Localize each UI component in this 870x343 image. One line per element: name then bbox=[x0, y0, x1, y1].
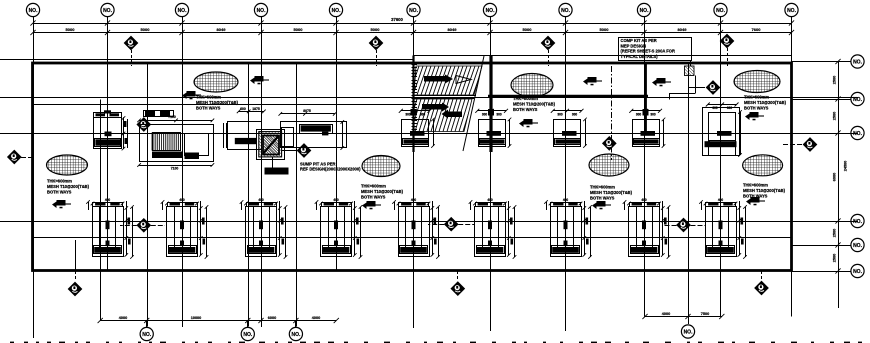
svg-text:BOTH WAYS: BOTH WAYS bbox=[744, 105, 769, 110]
svg-text:THK=600mm: THK=600mm bbox=[744, 95, 769, 100]
svg-text:400: 400 bbox=[333, 198, 339, 202]
svg-text:400: 400 bbox=[563, 198, 569, 202]
svg-text:300: 300 bbox=[712, 106, 718, 110]
svg-text:300: 300 bbox=[405, 112, 411, 116]
svg-text:7500: 7500 bbox=[701, 312, 709, 316]
svg-text:MESH T10@200(T&B): MESH T10@200(T&B) bbox=[513, 101, 556, 106]
svg-text:THK=600mm: THK=600mm bbox=[590, 185, 615, 190]
svg-text:4000: 4000 bbox=[312, 316, 320, 320]
svg-text:2500: 2500 bbox=[833, 229, 837, 237]
svg-text:BOTH WAYS: BOTH WAYS bbox=[590, 195, 615, 200]
svg-text:400: 400 bbox=[487, 198, 493, 202]
svg-text:REF DESIGN(2000X2000X2000): REF DESIGN(2000X2000X2000) bbox=[300, 167, 361, 172]
svg-text:MESH T10@200(T&B): MESH T10@200(T&B) bbox=[196, 100, 239, 105]
svg-text:300: 300 bbox=[496, 112, 502, 116]
svg-text:400: 400 bbox=[411, 198, 417, 202]
svg-text:300: 300 bbox=[420, 112, 426, 116]
svg-text:5000: 5000 bbox=[141, 27, 151, 32]
svg-text:400: 400 bbox=[258, 198, 264, 202]
svg-text:300: 300 bbox=[727, 106, 733, 110]
svg-text:BOTH WAYS: BOTH WAYS bbox=[196, 105, 221, 110]
svg-text:MESH T10@200(T&B): MESH T10@200(T&B) bbox=[743, 188, 786, 193]
svg-text:5000: 5000 bbox=[66, 27, 76, 32]
svg-text:8049: 8049 bbox=[448, 27, 458, 32]
svg-text:2500: 2500 bbox=[833, 254, 837, 262]
svg-text:8049: 8049 bbox=[678, 27, 688, 32]
svg-text:300: 300 bbox=[572, 112, 578, 116]
svg-text:5000: 5000 bbox=[294, 27, 304, 32]
svg-text:400: 400 bbox=[105, 198, 111, 202]
svg-text:8049: 8049 bbox=[217, 27, 227, 32]
svg-text:BOTH WAYS: BOTH WAYS bbox=[47, 189, 72, 194]
svg-text:400: 400 bbox=[718, 198, 724, 202]
svg-text:1875: 1875 bbox=[252, 107, 260, 111]
svg-text:37600: 37600 bbox=[391, 17, 403, 22]
svg-text:5000: 5000 bbox=[523, 27, 533, 32]
svg-text:MESH T10@200(T&B): MESH T10@200(T&B) bbox=[744, 100, 787, 105]
svg-text:600: 600 bbox=[240, 107, 246, 111]
svg-text:7100: 7100 bbox=[171, 167, 179, 171]
svg-text:BOTH WAYS: BOTH WAYS bbox=[361, 194, 386, 199]
svg-text:24500: 24500 bbox=[844, 161, 848, 172]
svg-text:4000: 4000 bbox=[119, 316, 127, 320]
svg-text:MESH T10@200(T&B): MESH T10@200(T&B) bbox=[590, 190, 633, 195]
svg-text:2500: 2500 bbox=[833, 76, 837, 84]
svg-text:300: 300 bbox=[557, 112, 563, 116]
svg-text:THK=600mm: THK=600mm bbox=[361, 184, 386, 189]
svg-text:300: 300 bbox=[636, 112, 642, 116]
svg-text:MESH T10@200(T&B): MESH T10@200(T&B) bbox=[361, 189, 404, 194]
svg-text:10000: 10000 bbox=[191, 316, 202, 320]
svg-text:4000: 4000 bbox=[662, 312, 670, 316]
svg-text:THK=600mm: THK=600mm bbox=[513, 96, 538, 101]
svg-text:THK=600mm: THK=600mm bbox=[743, 183, 768, 188]
svg-text:300: 300 bbox=[482, 112, 488, 116]
svg-text:300: 300 bbox=[650, 112, 656, 116]
svg-text:5000: 5000 bbox=[600, 27, 610, 32]
svg-text:6000: 6000 bbox=[268, 316, 276, 320]
svg-text:2500: 2500 bbox=[833, 112, 837, 120]
svg-text:5000: 5000 bbox=[371, 27, 381, 32]
svg-text:400: 400 bbox=[641, 198, 647, 202]
svg-text:400: 400 bbox=[179, 198, 185, 202]
svg-text:THK=600mm: THK=600mm bbox=[47, 179, 72, 184]
svg-text:MESH T10@200(T&B): MESH T10@200(T&B) bbox=[47, 184, 90, 189]
svg-text:BOTH WAYS: BOTH WAYS bbox=[513, 107, 538, 112]
svg-text:7600: 7600 bbox=[752, 27, 762, 32]
svg-text:6000: 6000 bbox=[833, 173, 837, 181]
svg-text:TYPICAL DETAILS): TYPICAL DETAILS) bbox=[621, 54, 659, 59]
svg-text:8075: 8075 bbox=[303, 109, 311, 113]
